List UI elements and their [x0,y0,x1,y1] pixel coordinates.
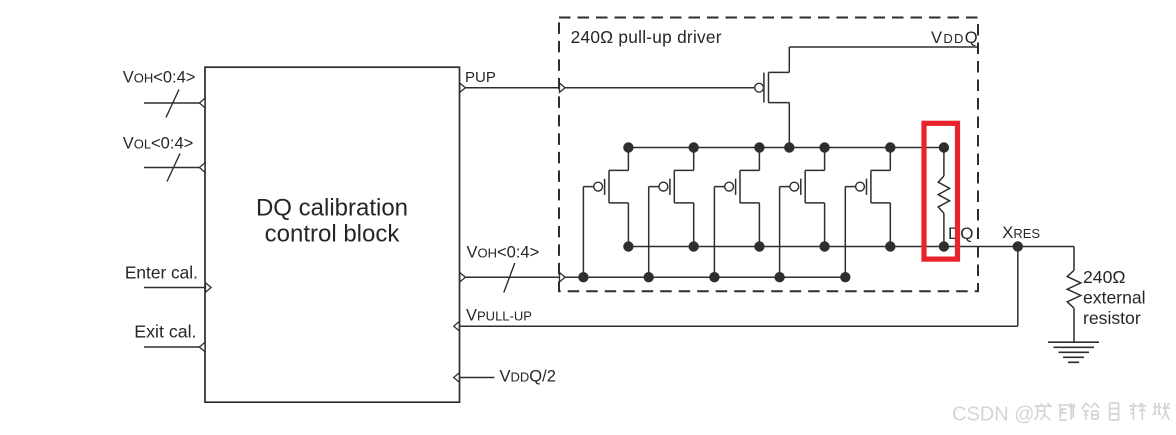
svg-text:DQ: DQ [948,224,974,243]
junction Q5 gate on bus [840,272,850,282]
junction Q1 drain on DQ rail [623,241,633,251]
wire VOH left [144,102,205,104]
svg-text:Exit cal.: Exit cal. [134,322,196,342]
arrowhead VOH right at dashed box [560,273,566,282]
highlight box (red) around internal resistor [924,123,958,259]
transistor Q4 (binary-weighted pull-up leg) [780,148,825,278]
wire VPULL-UP horizontal [460,325,1018,327]
junction Q4 drain on DQ rail [819,241,829,251]
svg-text:VOH<0:4>: VOH<0:4> [123,69,196,87]
pin arrowhead VDDQ/2 [454,373,460,382]
arrowhead PUP at dashed box [560,83,566,92]
node VOH<0:4> (right) [467,243,540,261]
junction resistor top [939,142,949,152]
transistor Q2 (binary-weighted pull-up leg) [649,148,694,278]
svg-text:CSDN @: CSDN @ [952,404,1035,426]
transistor Q0 (main pull-up PMOS) [755,47,790,148]
wire PUP to pull-up gate [565,87,755,89]
node VDDQ/2 [500,368,556,386]
DQ calibration control block [205,67,460,402]
junction Q4 gate on bus [774,272,784,282]
resistor internal (highlighted) [938,148,949,247]
junction Q3 drain on DQ rail [754,241,764,251]
svg-text:240Ω: 240Ω [1083,267,1126,287]
junction Q4 source on top rail [819,142,829,152]
node XRES [1002,224,1040,242]
wire PUP from control block to dashed box [460,87,560,89]
pin arrowhead VOH left [199,98,205,107]
node VOH<0:4> (left) [123,69,196,87]
junction Q2 source on top rail [689,142,699,152]
junction Q0 drain on top rail [784,142,794,152]
svg-text:VOL<0:4>: VOL<0:4> [123,135,194,153]
pin arrowhead Exit cal. [199,342,205,351]
transistor Q5 (binary-weighted pull-up leg) [845,148,890,278]
bus slash VOH right [504,263,515,293]
junction resistor bottom on DQ rail [939,241,949,251]
240ohm pull-up driver dashed box [559,18,978,292]
pin arrowhead VPULL-UP [454,322,460,331]
node VOL<0:4> (left) [123,135,194,153]
svg-text:VDDQ: VDDQ [931,29,979,47]
bus slash VOH left [166,90,179,118]
junction Q2 drain on DQ rail [689,241,699,251]
svg-text:240Ω pull-up driver: 240Ω pull-up driver [571,27,722,47]
junction Q1 source on top rail [623,142,633,152]
node VPULL-UP [466,307,532,325]
wire VDDQ/2 stub [460,377,495,379]
wire Enter cal. [144,287,205,289]
svg-text:Enter cal.: Enter cal. [125,262,198,282]
transistor Q3 (binary-weighted pull-up leg) [714,148,759,278]
svg-text:PUP: PUP [465,69,496,86]
ground [1048,342,1099,362]
svg-text:external: external [1083,288,1146,308]
svg-text:DQ calibration: DQ calibration [256,195,408,222]
pin arrowhead VOL left [199,163,205,172]
wire VOH right [460,276,560,278]
wire DQ output rail [628,246,1074,248]
svg-text:control block: control block [265,221,401,248]
watermark CJK chars approximated [1035,403,1171,420]
junction Q1 gate on bus [578,272,588,282]
svg-text:VDDQ/2: VDDQ/2 [500,368,556,386]
svg-text:XRES: XRES [1002,224,1040,242]
wire VOL left [144,167,205,169]
svg-text:VPULL-UP: VPULL-UP [466,307,532,325]
junction Q5 drain on DQ rail [885,241,895,251]
wire gate bus [565,276,844,278]
junction XRES [1013,241,1023,251]
junction Q2 gate on bus [644,272,654,282]
wire VDDQ rail [789,46,978,48]
transistor Q1 (binary-weighted pull-up leg) [583,148,628,278]
svg-text:VOH<0:4>: VOH<0:4> [467,243,540,261]
wire XRES to external resistor [1073,247,1075,271]
junction Q3 gate on bus [709,272,719,282]
junction Q5 source on top rail [885,142,895,152]
wire top source rail [628,147,944,149]
wire Exit cal. [144,346,205,348]
pin arrowhead VOH right at block [460,273,466,282]
node VDDQ [931,29,979,47]
svg-text:resistor: resistor [1083,308,1141,328]
resistor R ext 240ohm [1067,270,1081,342]
wire VPULL-UP vertical from XRES [1017,247,1019,327]
pin arrowhead PUP at block [460,83,466,92]
pin arrowhead Enter cal. [206,283,212,292]
bus slash VOL left [167,154,180,182]
junction Q3 source on top rail [754,142,764,152]
